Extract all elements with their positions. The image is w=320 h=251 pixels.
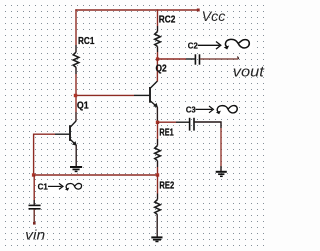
svg-text:RE1: RE1 bbox=[159, 128, 174, 139]
wire: Q1 collector to Q2 base bbox=[77, 94, 134, 96]
capacitor C2 bbox=[195, 54, 199, 64]
wire: Q2 emitter vertical to junction bbox=[156, 107, 158, 122]
annotation C1 -> infinity bbox=[38, 183, 82, 192]
svg-text:RE2: RE2 bbox=[159, 181, 174, 192]
node: Vcc rail open end bbox=[197, 9, 200, 12]
wire: RC1 bottom to Q1 collector bbox=[75, 67, 77, 74]
resistor RE2 bbox=[155, 200, 161, 215]
svg-text:RC2: RC2 bbox=[159, 15, 176, 26]
wire: left vertical from base corner bbox=[33, 134, 35, 176]
svg-text:C1: C1 bbox=[38, 183, 49, 192]
wire: Vcc top rail bbox=[75, 9, 199, 11]
wire: RC2 top lead bbox=[157, 9, 159, 26]
wire: Q1 base lead red part bbox=[33, 133, 55, 135]
svg-text:C3: C3 bbox=[186, 106, 196, 115]
wire: RE1 bottom to long-wire junction bbox=[157, 161, 159, 167]
ground under RE2 bbox=[151, 237, 162, 241]
wire: C3 right plate to ground corner bbox=[195, 122, 221, 128]
node: Q2 emitter / RE1 / C3 junction bbox=[156, 121, 159, 124]
transistor Q1 bbox=[55, 121, 76, 145]
node: right junction RE1/RE2 bbox=[156, 173, 159, 176]
capacitor C3 bbox=[190, 118, 194, 131]
wire: C1 top lead from junction bbox=[33, 175, 35, 200]
svg-text:Q1: Q1 bbox=[77, 100, 89, 111]
svg-text:vin: vin bbox=[25, 226, 45, 242]
wire: RE2 bottom lead to ground bbox=[156, 215, 158, 237]
resistor RC2 bbox=[155, 32, 161, 47]
wire: RC2 bottom to node bbox=[157, 47, 159, 53]
node: vin open end bbox=[33, 222, 36, 225]
node: RC2 / Q2 collector / C2 junction bbox=[156, 57, 159, 60]
resistor RE1 bbox=[155, 146, 161, 161]
node: junction Q1 collector / Q2 base bbox=[74, 94, 77, 97]
wire: C2 right plate to vout bbox=[200, 58, 238, 60]
wire: long horizontal to left side bbox=[34, 174, 158, 176]
resistor RC1 bbox=[73, 52, 79, 67]
annotation C3 -> infinity bbox=[186, 106, 237, 115]
svg-text:Q2: Q2 bbox=[156, 63, 168, 74]
transistor Q2 bbox=[150, 81, 158, 107]
node: vout open end tick bbox=[237, 57, 238, 59]
capacitor C1 bbox=[29, 205, 41, 208]
wire: C1 bottom lead to vin bbox=[33, 209, 35, 223]
label background patches bbox=[37, 14, 253, 197]
wire: RE1 top lead bbox=[157, 122, 159, 139]
ground under Q1 emitter bbox=[70, 167, 82, 171]
svg-text:Vcc: Vcc bbox=[202, 8, 226, 24]
wire: RC1 top lead bbox=[75, 9, 77, 45]
wire: Q1 emitter lead to ground bbox=[75, 145, 77, 166]
svg-text:RC1: RC1 bbox=[78, 36, 95, 47]
svg-text:C2: C2 bbox=[188, 41, 199, 50]
annotation C2 -> infinity bbox=[188, 39, 250, 50]
svg-text:vout: vout bbox=[233, 64, 265, 80]
wire: Q2 collector vertical bbox=[156, 59, 158, 81]
node: left junction C1/base bbox=[32, 173, 35, 176]
wire: junction to C3 left plate bbox=[158, 121, 176, 123]
wire: node to C2 left plate bbox=[158, 58, 186, 60]
wire: RE2 top lead bbox=[157, 175, 159, 194]
ground right of C3 bbox=[216, 172, 227, 177]
